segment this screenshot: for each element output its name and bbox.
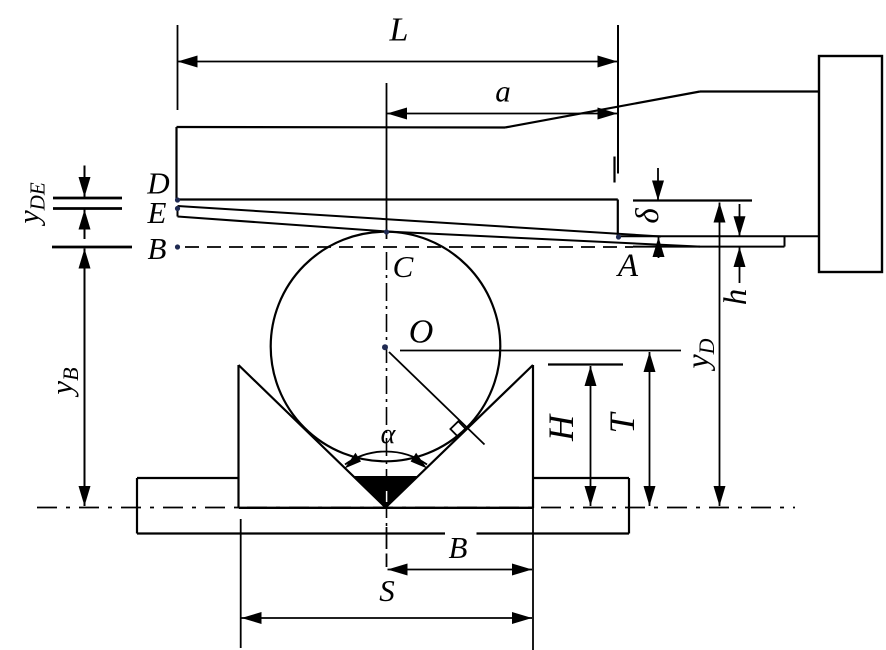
dimension S bbox=[242, 612, 533, 624]
V-block right edge bbox=[532, 365, 534, 508]
extension line left of L bbox=[177, 25, 179, 110]
white slit in filled V bbox=[386, 491, 388, 502]
svg-text:S: S bbox=[379, 573, 395, 608]
extension line S left bbox=[240, 519, 242, 648]
flat bar at A level bbox=[618, 236, 819, 246]
node B bbox=[175, 244, 180, 249]
dimension T bbox=[644, 352, 656, 506]
level line B bbox=[52, 246, 132, 249]
V-block left face bbox=[239, 365, 386, 508]
svg-text:B: B bbox=[449, 530, 468, 565]
lever bar (tilted measuring bar E-C-A) bbox=[178, 206, 701, 247]
level line E bbox=[53, 207, 122, 210]
base plate bbox=[137, 478, 629, 534]
level line D bbox=[53, 197, 122, 200]
svg-text:α: α bbox=[381, 419, 397, 450]
delta reference line bbox=[633, 199, 752, 201]
right angle square bbox=[450, 421, 466, 437]
radius line O to V face bbox=[389, 352, 485, 445]
extension line right of L and a bbox=[617, 25, 619, 174]
svg-text:L: L bbox=[389, 12, 409, 49]
V-block right face bbox=[386, 365, 533, 508]
filled V bottom bbox=[354, 477, 418, 508]
node O bbox=[382, 344, 388, 350]
svg-text:h: h bbox=[718, 289, 754, 306]
stylus tip mark bbox=[613, 157, 615, 183]
V-block left edge bbox=[237, 365, 239, 508]
indicator body bbox=[819, 56, 882, 272]
extension line right of B and S bbox=[532, 508, 534, 650]
base top line bbox=[239, 507, 534, 509]
dimension H bbox=[585, 366, 597, 506]
svg-text:A: A bbox=[616, 248, 639, 284]
svg-text:O: O bbox=[409, 314, 434, 351]
svg-text:a: a bbox=[495, 74, 511, 109]
node A corner bbox=[616, 234, 621, 239]
horizontal line from O bbox=[400, 350, 681, 352]
dashed line at B level bbox=[185, 246, 633, 248]
horizontal centre line bbox=[37, 507, 795, 509]
dimension yDE bbox=[79, 166, 91, 240]
dimension L bbox=[178, 56, 618, 68]
sphere bbox=[271, 232, 501, 462]
node D bbox=[175, 197, 180, 202]
angle alpha arc bbox=[345, 451, 428, 468]
svg-text:T: T bbox=[602, 411, 642, 434]
H reference line bbox=[548, 363, 623, 365]
dimension a bbox=[387, 108, 618, 120]
dimension yB bbox=[79, 249, 91, 507]
svg-text:B: B bbox=[148, 231, 167, 266]
dimension h bbox=[734, 204, 746, 283]
dimension yD bbox=[714, 203, 726, 507]
svg-text:E: E bbox=[147, 195, 167, 230]
dimension delta bbox=[652, 168, 665, 258]
vertical centre line solid upper part bbox=[386, 83, 388, 239]
svg-text:C: C bbox=[393, 249, 414, 284]
beam (indicator arm upper position) bbox=[177, 92, 820, 238]
extension line centre for B bbox=[386, 527, 388, 549]
svg-text:H: H bbox=[541, 413, 581, 442]
vertical centre line dash-dot bbox=[386, 252, 388, 530]
node C bbox=[384, 229, 389, 234]
node E bbox=[175, 206, 180, 211]
dimension B bbox=[388, 564, 533, 576]
svg-text:δ: δ bbox=[630, 208, 666, 224]
